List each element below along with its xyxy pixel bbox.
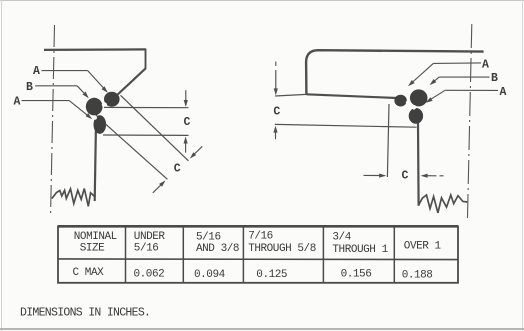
svg-text:B: B	[491, 72, 498, 85]
svg-text:7/16: 7/16	[248, 231, 273, 243]
svg-text:C: C	[273, 105, 280, 118]
weld face extension diagonal lower	[106, 124, 168, 179]
svg-text:OVER 1: OVER 1	[404, 241, 442, 253]
table row divider	[58, 258, 458, 261]
svg-text:A: A	[33, 65, 40, 78]
bevel chamfer edge	[116, 68, 146, 96]
white notches between beads	[102, 102, 107, 107]
table column divider	[125, 226, 127, 282]
top plate horizontal edge	[44, 48, 146, 51]
svg-text:NOMINAL: NOMINAL	[74, 231, 117, 243]
leader B	[35, 85, 77, 87]
svg-text:B: B	[26, 81, 33, 94]
svg-text:THROUGH 1: THROUGH 1	[332, 244, 388, 256]
svg-text:UNDER: UNDER	[134, 231, 166, 243]
right plate vertical edge	[417, 110, 420, 206]
weld face extension diagonal upper	[121, 95, 189, 161]
centerline (dash-dot) left	[51, 25, 55, 213]
break line zigzag right	[418, 195, 467, 213]
svg-text:A: A	[13, 95, 20, 108]
table column divider	[242, 226, 244, 282]
svg-text:3/4: 3/4	[332, 232, 351, 244]
lower extension line	[275, 124, 417, 127]
svg-text:DIMENSIONS IN INCHES.: DIMENSIONS IN INCHES.	[20, 306, 150, 319]
top arrow tail dash	[275, 62, 277, 67]
leader A lower	[22, 100, 70, 102]
svg-text:C MAX: C MAX	[73, 267, 105, 279]
svg-text:0.062: 0.062	[134, 269, 165, 281]
bottom C dim: vertical extension line	[387, 104, 389, 177]
svg-text:THROUGH 5/8: THROUGH 5/8	[248, 243, 316, 255]
table column divider	[393, 226, 395, 282]
svg-text:AND 3/8: AND 3/8	[196, 243, 239, 255]
plate right edge vertical	[145, 49, 147, 69]
arrow down	[275, 70, 277, 93]
centerline (dash-dot) right	[467, 24, 471, 222]
table column divider	[182, 226, 184, 282]
left arrow	[364, 174, 382, 176]
plate bottom edge	[306, 94, 396, 98]
leader B right	[439, 76, 489, 78]
extension line upper (C dim)	[104, 106, 189, 108]
C dim arrow down	[185, 90, 187, 104]
C vertical dim right diagram: top extension	[275, 94, 306, 96]
weld bead dome on plate edge	[394, 95, 406, 107]
leader A lower right	[445, 89, 498, 91]
weld bead blob upper-right	[410, 89, 428, 106]
diag C arrow upper	[192, 146, 202, 156]
svg-text:0.094: 0.094	[194, 269, 226, 281]
table column divider	[322, 226, 324, 282]
white notches right beads	[406, 100, 411, 105]
leader A upper	[42, 70, 88, 72]
svg-text:0.125: 0.125	[256, 269, 287, 281]
svg-text:SIZE: SIZE	[80, 243, 105, 255]
svg-text:C: C	[174, 163, 181, 176]
leader A upper right	[433, 62, 481, 65]
svg-text:5/16: 5/16	[134, 242, 159, 254]
weld bead blob lower-right	[409, 108, 423, 124]
lower plate vertical edge	[95, 110, 97, 201]
extension line lower (C dim)	[103, 134, 189, 136]
top plate outline with rounded corner	[306, 50, 484, 94]
svg-text:0.188: 0.188	[402, 270, 433, 282]
svg-text:A: A	[482, 58, 489, 71]
svg-text:A: A	[500, 86, 507, 99]
right arrow	[421, 174, 428, 178]
data table	[58, 226, 458, 282]
C dim arrow up	[185, 139, 187, 153]
weld bead blob left	[86, 98, 103, 116]
weld bead blob lower	[94, 115, 107, 134]
svg-text:5/16: 5/16	[196, 231, 221, 243]
svg-text:C: C	[402, 170, 409, 183]
svg-text:C: C	[184, 116, 191, 129]
diag C arrow lower	[153, 184, 162, 193]
arrow up	[275, 128, 277, 139]
break line zigzag left	[52, 189, 95, 207]
svg-text:0.156: 0.156	[341, 269, 372, 281]
weld bead blob upper (on chamfer)	[104, 92, 120, 107]
